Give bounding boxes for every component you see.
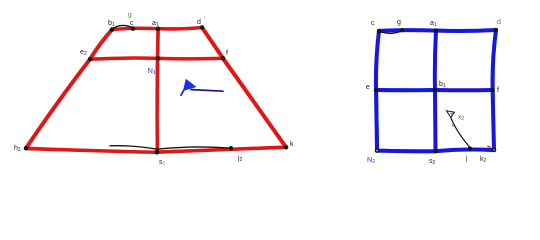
node D [200, 25, 205, 30]
svg-text:d: d [197, 19, 201, 26]
node BM [433, 149, 437, 153]
node J [229, 146, 233, 150]
annotation arrow (blue cursor) [183, 79, 197, 91]
svg-text:f: f [226, 50, 228, 57]
node BR [492, 148, 497, 153]
wire second row E-F-G [90, 58, 223, 59]
node BX [468, 146, 472, 150]
svg-text:h2: h2 [14, 145, 21, 153]
black arc edge bottom H..J [110, 146, 231, 150]
svg-text:d: d [497, 19, 501, 26]
annotation shaft (navy line) [191, 90, 223, 92]
node BL [375, 148, 380, 153]
svg-text:e2: e2 [80, 49, 87, 57]
svg-text:c: c [371, 20, 375, 27]
wire bottom edge H-I-J-K [26, 147, 286, 152]
wire slant G-K [223, 58, 286, 147]
svg-text:s2: s2 [429, 158, 436, 166]
node E [88, 57, 93, 62]
svg-text:': ' [204, 17, 205, 23]
svg-text:N2: N2 [367, 157, 375, 165]
node B [131, 26, 136, 31]
svg-text:e: e [366, 84, 370, 91]
svg-text:c: c [130, 20, 134, 27]
node F [156, 56, 161, 61]
node T2 [400, 28, 404, 32]
svg-text:f: f [497, 87, 499, 94]
wire middle horizontal [376, 88, 493, 92]
annotation red tick [451, 113, 454, 114]
black arc edge TL-T2 [379, 31, 402, 34]
black arc edge A-B [112, 25, 133, 29]
node MC [433, 88, 437, 92]
svg-text:s1: s1 [159, 159, 166, 167]
wire middle vertical [435, 31, 436, 152]
node I [155, 150, 160, 155]
svg-text:b1: b1 [108, 20, 115, 28]
label BR (red tick + dark) [487, 146, 490, 147]
wire bottom edge [377, 150, 494, 152]
svg-text:j: j [465, 155, 468, 162]
wire right vertical [493, 30, 496, 150]
wire slant D-G [202, 28, 223, 59]
svg-text:k2: k2 [480, 156, 487, 164]
node ML [374, 88, 378, 92]
node A [110, 27, 115, 32]
wire top edge [379, 30, 496, 31]
wire slant E-H [26, 59, 90, 148]
wire vertical C-F-I [155, 29, 159, 152]
wire slant A-E [90, 30, 112, 60]
node MR [490, 88, 494, 92]
wire top edge A-B-C-D [112, 28, 202, 30]
node G [221, 56, 226, 61]
svg-text:x2: x2 [458, 114, 464, 122]
annotation hollow arrow [447, 111, 455, 118]
node C [156, 27, 161, 32]
svg-text:g: g [128, 12, 132, 19]
node K [284, 145, 289, 150]
node TR [494, 28, 498, 32]
wire left vertical [376, 31, 379, 151]
node H [24, 146, 29, 151]
svg-text:j2: j2 [237, 155, 243, 163]
node TL [377, 29, 381, 33]
svg-text:g: g [397, 19, 401, 26]
svg-text:a1: a1 [152, 20, 159, 28]
svg-text:k: k [290, 141, 294, 148]
annotation thin line to BX [451, 118, 470, 148]
node TM [434, 28, 438, 32]
svg-text:b1: b1 [439, 81, 446, 89]
svg-text:a1: a1 [430, 20, 437, 28]
